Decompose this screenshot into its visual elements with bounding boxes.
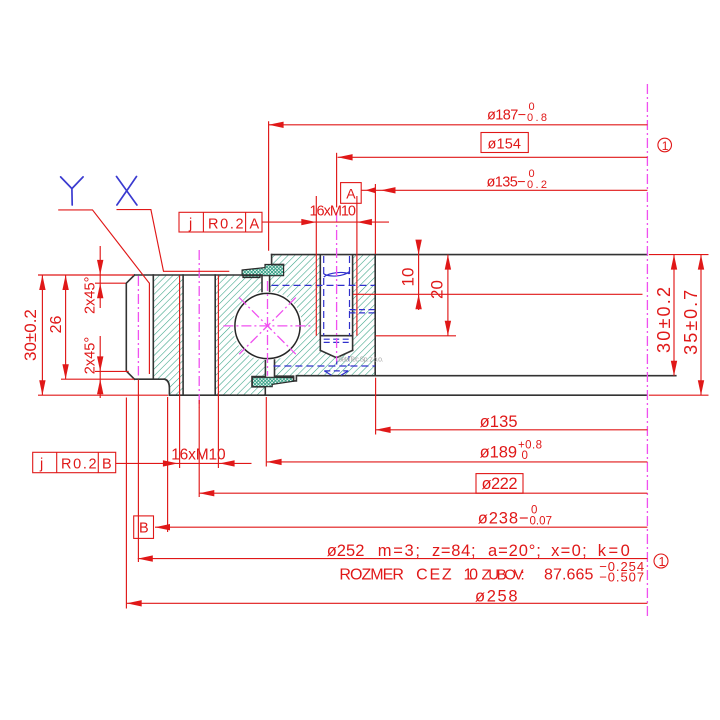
dimension ø222 boxed	[199, 400, 647, 497]
left ring raceway gap wall bottom and seal notch	[252, 361, 265, 396]
svg-text:35±0.7: 35±0.7	[681, 290, 701, 355]
feature control frame j R0.2 B	[33, 452, 116, 472]
svg-text:a=20°;: a=20°;	[488, 542, 541, 560]
svg-text:B: B	[139, 520, 149, 536]
step fillet	[165, 379, 170, 395]
left ring outer edge with chamfers	[126, 275, 134, 379]
svg-text:ø135: ø135	[480, 413, 518, 431]
dimension 16xM10 bottom	[116, 276, 252, 469]
dimension ø252 gear data	[138, 380, 648, 563]
left ring hole centerline	[198, 250, 200, 408]
svg-text:CEZ: CEZ	[416, 567, 452, 584]
dimension 30±0.2 right	[649, 255, 709, 376]
ball horizontal centerline	[223, 325, 312, 327]
svg-text:10: 10	[464, 567, 479, 584]
svg-text:20: 20	[428, 280, 447, 299]
svg-text:R0.2: R0.2	[61, 456, 97, 472]
dimension 20 thread depth	[376, 255, 457, 336]
svg-text:ø154: ø154	[488, 137, 522, 153]
flag note 1 bottom	[654, 554, 668, 569]
dimension 35±0.7 right	[649, 255, 709, 396]
M10 hole drill point cone	[320, 350, 352, 357]
svg-text:B: B	[102, 456, 112, 472]
svg-text:x=0;: x=0;	[551, 542, 587, 560]
dimension ø238 with datum B	[134, 397, 648, 538]
dimension ø135 bottom	[376, 378, 648, 435]
svg-text:ø187−: ø187−	[487, 107, 526, 123]
svg-text:30±0.2: 30±0.2	[21, 309, 40, 361]
gear tooth root boundary	[152, 275, 154, 379]
gear ring section hatch (left ring)	[153, 275, 265, 395]
dimension ø135 top with datum A	[341, 168, 648, 254]
dimension 2x45 top chamfer	[82, 246, 125, 314]
label X mounting face	[117, 177, 230, 272]
right ring raceway gap wall bottom with seal step	[275, 360, 294, 381]
svg-text:betaTec Sp. z o.o.: betaTec Sp. z o.o.	[338, 356, 383, 363]
gear rim bottom face	[135, 378, 165, 380]
dimension ø187	[269, 101, 648, 251]
dimension ø258 gear tip	[126, 398, 647, 609]
svg-text:2x45°: 2x45°	[82, 277, 98, 314]
feature control frame j R0.2 A	[179, 212, 262, 232]
M10 thread depth line	[320, 335, 352, 337]
svg-text:j: j	[39, 456, 43, 472]
label Y gear surface	[58, 177, 149, 374]
flag note 1 top	[658, 138, 672, 153]
svg-text:j: j	[188, 216, 192, 232]
dimension 10 depth	[353, 240, 643, 310]
left ring top face line	[135, 274, 263, 276]
right ring top face line	[272, 254, 648, 256]
svg-text:−0.507: −0.507	[599, 569, 644, 584]
raceway relief pockets	[230, 321, 305, 332]
left ring raceway gap wall top	[261, 276, 263, 292]
svg-text:1: 1	[662, 139, 669, 153]
hidden thread runout lines	[324, 339, 350, 342]
note ROZMER CEZ 10 ZUBOV	[339, 559, 644, 585]
ball diagonal centerlines	[239, 298, 296, 355]
watermark	[338, 356, 383, 363]
hidden bottom recess line y366	[273, 365, 375, 367]
svg-text:ZUBOV:: ZUBOV:	[482, 567, 525, 584]
svg-text:R0.2: R0.2	[208, 216, 244, 232]
svg-text:ø222: ø222	[482, 475, 518, 493]
svg-text:26: 26	[48, 316, 65, 334]
right ring hole centerline	[336, 212, 338, 362]
svg-text:z=84;: z=84;	[432, 542, 476, 560]
svg-text:2x45°: 2x45°	[83, 337, 99, 374]
svg-text:m=3;: m=3;	[378, 542, 420, 560]
M10 thread chamfer arcs	[324, 272, 350, 277]
svg-text:ø238−: ø238−	[478, 510, 529, 528]
M10 thread hidden lines	[324, 256, 350, 336]
hidden recess line y285	[272, 284, 376, 286]
svg-text:A: A	[250, 216, 260, 232]
gear pitch centerline	[137, 276, 139, 376]
M10 tapped hole drill walls	[320, 255, 352, 350]
dimension 30±0.2 left	[21, 275, 168, 395]
dimension 26 gear width	[48, 275, 134, 379]
right ring raceway gap wall top	[269, 276, 271, 292]
svg-text:ø252: ø252	[327, 542, 365, 560]
hidden bottom counterbore	[324, 371, 348, 375]
svg-text:k=0: k=0	[598, 542, 630, 560]
bottom seal	[252, 377, 293, 386]
svg-text:0: 0	[522, 450, 528, 462]
svg-text:87.665: 87.665	[544, 567, 593, 584]
svg-text:0.8: 0.8	[527, 112, 547, 124]
svg-text:A: A	[346, 185, 356, 201]
svg-text:1: 1	[659, 555, 666, 569]
main assembly centerline	[646, 84, 648, 617]
hidden plug hole verticals	[337, 356, 349, 366]
hidden grease hole lines	[350, 310, 376, 313]
dimension 2x45 bottom chamfer	[83, 336, 129, 398]
svg-text:30±0.2: 30±0.2	[654, 287, 674, 353]
left ring bottom face line	[169, 394, 647, 396]
svg-text:16xM10: 16xM10	[171, 446, 226, 463]
ball	[235, 293, 300, 358]
svg-text:10: 10	[398, 268, 417, 287]
dimension ø189 raceway	[266, 397, 647, 467]
top seal	[242, 265, 284, 278]
ball vertical centerline	[267, 281, 269, 376]
dimension 16xM10 top	[262, 196, 389, 336]
svg-text:ø135−: ø135−	[487, 174, 526, 190]
right ring left corner and seal groove	[272, 255, 284, 265]
support ring section hatch (right ring)	[270, 254, 376, 376]
right ring bottom face line	[294, 376, 676, 381]
dimension ø154 boxed	[337, 133, 648, 208]
svg-text:ø189: ø189	[480, 444, 517, 462]
right ring bore wall	[374, 255, 376, 376]
left ring M10 hole walls	[183, 275, 215, 395]
svg-text:16xM10: 16xM10	[310, 203, 357, 219]
svg-text:ROZMER: ROZMER	[339, 567, 404, 584]
svg-text:0.07: 0.07	[530, 516, 553, 528]
svg-text:0.2: 0.2	[527, 179, 547, 191]
